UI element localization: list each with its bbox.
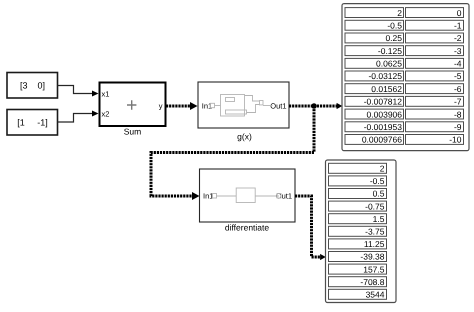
svg-text:2: 2 — [380, 164, 385, 174]
svg-text:-2: -2 — [454, 33, 462, 43]
svg-text:[3 0]: [3 0] — [20, 81, 45, 91]
subsystem block g(x) — [198, 82, 289, 142]
svg-text:157.5: 157.5 — [363, 264, 385, 274]
svg-text:-0.5: -0.5 — [387, 21, 402, 31]
svg-text:-0.03125: -0.03125 — [368, 71, 402, 81]
svg-text:0.5: 0.5 — [373, 189, 385, 199]
svg-text:0: 0 — [457, 8, 462, 18]
svg-text:[1 -1]: [1 -1] — [17, 118, 48, 128]
g(x) internal icon (grey miniature) — [211, 95, 273, 117]
svg-text:-39.38: -39.38 — [360, 252, 384, 262]
svg-text:-10: -10 — [449, 135, 462, 145]
wire (bold vector) branch from junction down to differentiate In1 — [151, 106, 314, 200]
display block Display1 (column output of differentiate) — [326, 160, 397, 303]
svg-text:0.25: 0.25 — [385, 33, 402, 43]
svg-text:-1: -1 — [454, 21, 462, 31]
svg-text:y: y — [159, 101, 163, 110]
svg-text:Sum: Sum — [124, 127, 141, 137]
differentiate internal icon (grey miniature) — [213, 188, 282, 203]
svg-text:-0.001953: -0.001953 — [364, 122, 403, 132]
subsystem block Sum — [100, 83, 166, 137]
svg-text:differentiate: differentiate — [225, 223, 270, 233]
svg-text:2: 2 — [397, 8, 402, 18]
svg-text:11.25: 11.25 — [364, 239, 385, 249]
svg-text:3544: 3544 — [366, 290, 385, 300]
svg-text:1.5: 1.5 — [373, 214, 385, 224]
svg-text:-8: -8 — [454, 109, 462, 119]
svg-text:-4: -4 — [454, 59, 462, 69]
svg-text:0.003906: 0.003906 — [367, 109, 403, 119]
svg-text:-0.125: -0.125 — [378, 46, 402, 56]
svg-text:-7: -7 — [454, 97, 462, 107]
svg-text:0.0009766: 0.0009766 — [362, 135, 402, 145]
svg-text:0.0625: 0.0625 — [376, 59, 402, 69]
junction node on vector line — [311, 103, 317, 109]
svg-text:x2: x2 — [102, 109, 110, 118]
wire (bold vector) g(x) Out1 to Display with branch junction — [289, 103, 342, 109]
wire Constant2 to Sum port x2 — [58, 111, 99, 123]
svg-text:-9: -9 — [454, 122, 462, 132]
svg-text:g(x): g(x) — [237, 132, 252, 142]
svg-text:0.01562: 0.01562 — [371, 84, 402, 94]
svg-text:-3.75: -3.75 — [365, 227, 385, 237]
svg-text:-5: -5 — [454, 71, 462, 81]
svg-text:-0.007812: -0.007812 — [364, 97, 403, 107]
subsystem block differentiate — [200, 169, 296, 233]
wire Constant1 to Sum port x1 — [58, 86, 99, 97]
display block Display (two-column matrix output of g(x)) — [342, 4, 469, 151]
constant block Constant1 value [3 0] — [7, 73, 58, 99]
svg-text:x1: x1 — [102, 89, 110, 98]
svg-text:-3: -3 — [454, 46, 462, 56]
svg-text:-0.75: -0.75 — [365, 201, 385, 211]
svg-text:-0.5: -0.5 — [370, 176, 385, 186]
svg-text:-6: -6 — [454, 84, 462, 94]
svg-text:Out1: Out1 — [270, 101, 286, 110]
svg-text:-708.8: -708.8 — [360, 277, 384, 287]
wire (bold vector) differentiate Out1 to Display1 — [295, 196, 326, 260]
constant block Constant2 value [1 -1] — [7, 110, 58, 136]
wire (bold vector) Sum y to g(x) In1 — [166, 102, 198, 110]
svg-text:In1: In1 — [203, 192, 213, 201]
